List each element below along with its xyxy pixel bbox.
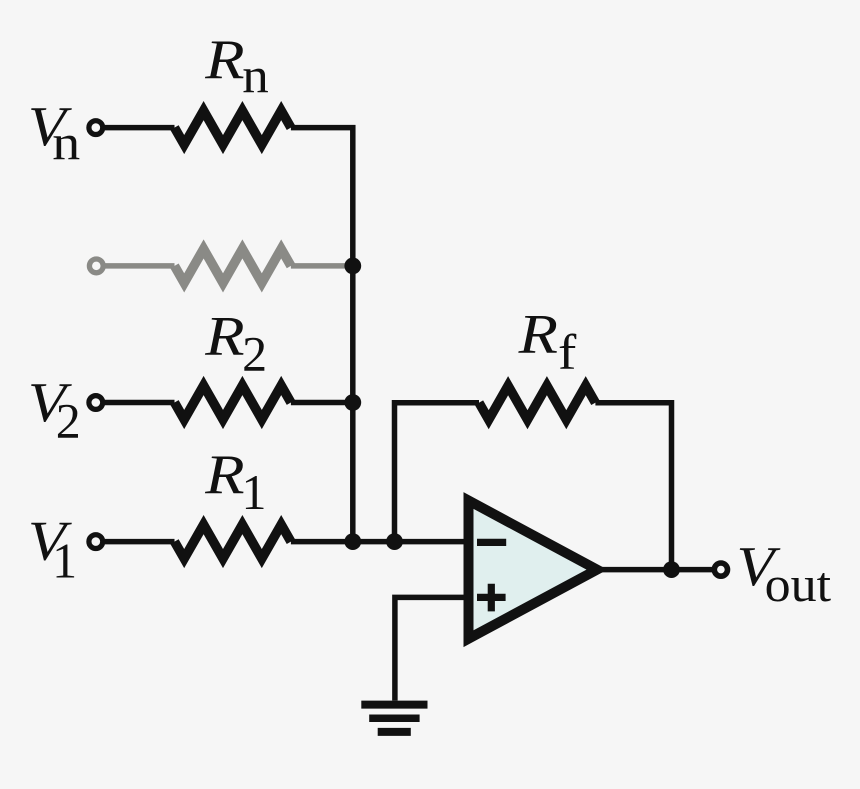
wire feedback left leg bbox=[395, 403, 480, 542]
svg-text:n: n bbox=[242, 48, 269, 103]
svg-text:n: n bbox=[52, 116, 80, 171]
svg-text:2: 2 bbox=[242, 326, 267, 382]
wire op-amp output bbox=[596, 567, 714, 573]
terminal V1 bbox=[89, 535, 103, 549]
terminal gray input bbox=[89, 259, 103, 273]
op-amp inverting input minus sign bbox=[477, 539, 506, 546]
node junction feedback at output bbox=[663, 561, 680, 578]
wire non-inverting input to ground bbox=[395, 597, 469, 700]
resistor Rn bbox=[175, 111, 291, 145]
resistor gray (unlabeled) bbox=[175, 249, 291, 283]
terminal Vout bbox=[714, 563, 727, 576]
svg-text:R: R bbox=[518, 303, 558, 365]
resistor Rf bbox=[479, 386, 595, 420]
svg-text:f: f bbox=[558, 325, 577, 380]
wire V1 input bbox=[103, 539, 175, 545]
wire feedback right leg bbox=[595, 403, 671, 570]
node junction feedback at inverting input bbox=[386, 533, 403, 550]
wire V1 row to op-amp inverting input bbox=[291, 539, 469, 545]
resistor R1 bbox=[175, 525, 291, 559]
svg-text:R: R bbox=[204, 306, 244, 368]
node junction gray resistor to bus bbox=[344, 258, 361, 275]
wire gray input bbox=[104, 263, 175, 269]
svg-text:R: R bbox=[204, 444, 244, 506]
wire R2 to bus bbox=[291, 400, 353, 406]
op-amp U1 bbox=[469, 501, 598, 639]
svg-text:1: 1 bbox=[242, 464, 267, 520]
svg-text:R: R bbox=[204, 29, 244, 91]
op-amp non-inverting input plus sign bbox=[477, 584, 506, 612]
wire gray to bus bbox=[291, 263, 353, 269]
svg-text:2: 2 bbox=[56, 392, 81, 448]
wire bus vertical with Vn row corner bbox=[291, 128, 353, 542]
wire Vn input bbox=[103, 125, 175, 131]
resistor R2 bbox=[175, 386, 291, 420]
ground bbox=[361, 705, 427, 732]
terminal V2 bbox=[89, 396, 103, 410]
svg-text:out: out bbox=[765, 558, 831, 613]
terminal Vn bbox=[89, 121, 103, 135]
node junction R2 to bus bbox=[344, 394, 361, 411]
node junction R1 to bus bbox=[344, 533, 361, 550]
wire V2 input bbox=[103, 400, 175, 406]
svg-text:1: 1 bbox=[52, 533, 77, 589]
